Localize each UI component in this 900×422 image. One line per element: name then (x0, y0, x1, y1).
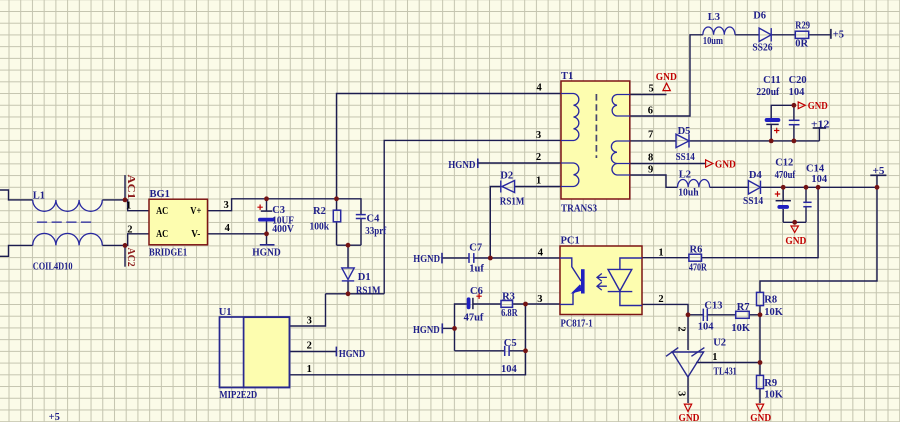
node D1 bottom junction (346, 291, 351, 296)
svg-text:HGND: HGND (252, 248, 281, 259)
svg-text:U2: U2 (713, 337, 726, 348)
wire T1 pin7 to D5 (630, 140, 676, 142)
ground symbol GND at T1 pin8 (red right arrow) (706, 160, 713, 167)
svg-text:100k: 100k (310, 222, 330, 233)
svg-text:C6: C6 (470, 286, 483, 297)
wire T1 pin9 to L2 (630, 175, 678, 187)
svg-text:10K: 10K (764, 307, 784, 318)
wire +12 stem (818, 128, 820, 141)
svg-text:C5: C5 (504, 338, 517, 349)
diode D2 (501, 181, 515, 193)
capacitor C12 (electrolytic) (775, 191, 791, 209)
wire TL431 anode to GND (687, 376, 689, 403)
svg-text:L3: L3 (708, 12, 720, 23)
svg-text:AC: AC (156, 229, 168, 240)
svg-text:3: 3 (676, 391, 687, 396)
transformer T1 primary winding pins4-3 (561, 94, 579, 141)
svg-text:RS1M: RS1M (356, 285, 381, 296)
wire C4 top branch (337, 199, 362, 215)
wire C6/C5 node vertical (455, 304, 467, 351)
svg-text:4: 4 (225, 223, 231, 234)
node C3 top junction (264, 196, 269, 201)
wire D1 bottom lead (347, 281, 349, 294)
wire L1 top to node AC1 (102, 199, 125, 201)
wire C5 riser to R3 node (525, 304, 527, 351)
svg-text:1: 1 (126, 200, 131, 211)
svg-text:470uf: 470uf (775, 170, 796, 181)
svg-text:470R: 470R (689, 262, 707, 273)
bridge BG1 body (149, 199, 208, 245)
svg-text:7: 7 (648, 130, 653, 141)
svg-text:D4: D4 (749, 170, 763, 181)
wire R6 to PC1 pin1 (642, 257, 689, 259)
svg-text:6: 6 (648, 105, 653, 116)
svg-text:9: 9 (648, 164, 653, 175)
optocoupler PC1 LED (608, 258, 642, 306)
svg-text:SS26: SS26 (752, 43, 772, 54)
svg-text:3: 3 (537, 294, 542, 305)
wire C12 bottom stub (782, 209, 784, 222)
svg-text:2: 2 (127, 224, 132, 235)
svg-text:HGND: HGND (339, 349, 366, 360)
svg-text:1: 1 (712, 352, 717, 363)
wire R8 bottom lead (759, 306, 761, 315)
svg-text:GND: GND (785, 236, 806, 247)
wire HGND to C7 (442, 257, 469, 259)
svg-text:HGND: HGND (413, 254, 440, 265)
svg-text:33prf: 33prf (365, 226, 386, 237)
svg-text:COIL4D10: COIL4D10 (33, 261, 73, 272)
optocoupler PC1 phototransistor (560, 258, 585, 304)
svg-text:104: 104 (698, 322, 715, 333)
wire +5 stem mid-right (876, 176, 878, 188)
inductor L3 (703, 27, 735, 35)
svg-text:GND: GND (679, 413, 700, 422)
diode D6 (759, 28, 771, 41)
wire C5 left lead (455, 350, 505, 352)
wire C20 bottom stub (793, 125, 795, 141)
svg-text:2: 2 (536, 152, 541, 163)
svg-text:U1: U1 (219, 307, 232, 318)
svg-text:+5: +5 (833, 29, 844, 40)
node C12 top junction (781, 185, 786, 190)
wire node AC1 to bridge pin1 (125, 200, 149, 211)
ground symbol GND below C12/C14 (red down arrow) (791, 226, 798, 232)
ground symbol GND below R9 (red down arrow) (756, 404, 763, 411)
svg-text:D5: D5 (678, 126, 691, 137)
svg-text:SS14: SS14 (743, 196, 764, 207)
svg-text:TRANS3: TRANS3 (561, 204, 597, 215)
node C12/C14 ground junction (792, 220, 797, 225)
svg-text:BRIDGE1: BRIDGE1 (149, 247, 187, 258)
svg-text:1: 1 (536, 175, 541, 186)
wire bridge pin4 to C3 bottom (208, 233, 267, 235)
wire L2 to D4 (710, 186, 749, 188)
optocoupler PC1 body (560, 246, 642, 315)
node C5 right junction (523, 348, 528, 353)
wire C13 tap (688, 314, 703, 316)
node C11 bottom junction (769, 139, 774, 144)
wire U1 pin3 (290, 294, 326, 326)
svg-text:2: 2 (658, 294, 663, 305)
regulator U2 TL431 (666, 348, 704, 377)
svg-text:R2: R2 (313, 206, 326, 217)
svg-text:10K: 10K (764, 390, 784, 401)
ground symbol GND below TL431 (red down arrow) (684, 404, 691, 411)
svg-text:1: 1 (658, 248, 663, 259)
svg-text:HGND: HGND (413, 325, 440, 336)
svg-text:R3: R3 (502, 291, 515, 302)
wire C4 bottom stub (360, 219, 362, 246)
wire C3 bottom stub to HGND (266, 221, 268, 244)
svg-text:GND: GND (750, 413, 771, 422)
diode D4 (748, 181, 760, 194)
svg-text:104: 104 (789, 87, 806, 98)
wire T1 pin5 to GND (630, 94, 667, 96)
wire L3 to D6 (735, 34, 759, 36)
node C3 bottom junction (264, 231, 269, 236)
svg-text:D2: D2 (500, 171, 513, 182)
svg-text:TL431: TL431 (714, 366, 737, 377)
svg-text:D1: D1 (358, 272, 371, 283)
transformer T1 core dashed line (595, 94, 597, 158)
node C20 bottom junction (792, 139, 797, 144)
wire T1 pin8 to GND (630, 163, 706, 165)
wire AC-in top-left entry (0, 190, 33, 200)
node +5 stem junction (875, 185, 880, 190)
transformer T1 secondary winding pins7-8-9 (611, 141, 630, 175)
wire C20 top stub (793, 105, 795, 120)
resistor R7 (736, 311, 750, 318)
wire T1 pin6 up to L3 (630, 35, 703, 116)
svg-text:MIP2E2D: MIP2E2D (219, 390, 257, 401)
svg-text:2: 2 (676, 326, 687, 331)
svg-text:AC: AC (156, 206, 168, 217)
capacitor C20 (789, 120, 800, 124)
wire HGND to T1 pin2 (478, 162, 561, 164)
wire PC1 pin2 to TL431 cathode (642, 304, 688, 350)
wire D1 node to T1 pin3 (384, 140, 561, 293)
power port +12 (813, 127, 826, 129)
svg-text:10uh: 10uh (678, 188, 699, 199)
svg-text:8: 8 (648, 153, 653, 164)
IC U1 MIP2E2D body (220, 317, 290, 388)
svg-text:C14: C14 (806, 164, 825, 175)
node R7/R8 junction (758, 312, 763, 317)
inductor L1 common-mode choke (33, 200, 103, 246)
wire node to T1 pin4 (337, 94, 562, 199)
power bar HGND at C6 node (441, 323, 443, 333)
wire D2 cathode to C7 node (490, 187, 501, 259)
svg-text:C13: C13 (704, 300, 722, 311)
svg-text:2: 2 (307, 341, 312, 352)
wire C6 right to R3 (473, 303, 501, 305)
wire R9 bottom to GND (759, 389, 761, 403)
svg-text:3: 3 (536, 130, 541, 141)
svg-text:RS1M: RS1M (500, 197, 525, 208)
capacitor C5 (505, 346, 509, 356)
svg-text:V+: V+ (190, 206, 201, 217)
wire C3 top stub (266, 199, 268, 211)
svg-text:4: 4 (538, 248, 544, 259)
wire C14 bottom stub (805, 207, 807, 223)
wire AC-in bottom-left entry (0, 245, 33, 256)
capacitor C11 (electrolytic) (765, 118, 781, 133)
node R3/PC1-pin3 junction (523, 302, 528, 307)
wire AC2 stub (124, 245, 126, 266)
diode D1 (342, 268, 354, 281)
wire R3 right to PC1 pin3 (513, 303, 561, 305)
svg-text:1uf: 1uf (469, 264, 484, 275)
wire C13 to R7 (707, 314, 735, 316)
node TL431 ref junction (758, 360, 763, 365)
transformer T1 primary winding pins2-1 (561, 163, 579, 187)
wire R29 to +5 (809, 34, 831, 36)
node R2/C4/D1 junction (346, 243, 351, 248)
wire U1 pin1 (290, 351, 526, 375)
svg-text:PC817-1: PC817-1 (561, 319, 593, 330)
resistor R9 (757, 375, 764, 388)
transformer T1 secondary winding pins5-6 (612, 95, 630, 117)
svg-text:SS14: SS14 (676, 152, 696, 163)
wire C7 to PC1 pin4 (474, 257, 560, 259)
wire C12/C14 ground link (783, 221, 806, 223)
svg-text:C12: C12 (775, 157, 793, 168)
wire R7 to R8 node (749, 314, 760, 316)
svg-text:L2: L2 (679, 170, 691, 181)
wire D5 cathode rail to +12 (689, 140, 819, 142)
wire AC1 stub (124, 175, 126, 200)
wire D1 top lead (347, 245, 349, 268)
power bar HGND at T1 pin2 (477, 159, 479, 169)
svg-text:GND: GND (715, 159, 736, 170)
svg-text:1: 1 (307, 364, 312, 375)
svg-text:T1: T1 (561, 71, 573, 82)
svg-text:GND: GND (656, 72, 677, 83)
svg-text:C11: C11 (763, 75, 781, 86)
svg-text:R6: R6 (690, 245, 703, 256)
svg-text:L1: L1 (33, 190, 45, 201)
wire D1 node horizontal (326, 293, 385, 295)
wire R2 bottom lead (336, 222, 338, 245)
node R6 riser junction (816, 185, 821, 190)
node C14 top junction (804, 185, 809, 190)
node C11/C20 top junction (792, 103, 797, 108)
node AC2 junction (123, 243, 128, 248)
svg-text:220uf: 220uf (756, 87, 779, 98)
svg-text:V-: V- (191, 229, 201, 240)
ground symbol GND at C11/C20 (red right arrow) (798, 102, 805, 109)
svg-text:R29: R29 (795, 21, 810, 32)
wire R9 top lead (759, 363, 761, 376)
svg-text:AC2: AC2 (125, 248, 136, 267)
svg-text:BG1: BG1 (150, 189, 170, 200)
svg-text:R7: R7 (737, 302, 750, 313)
capacitor C7 (469, 253, 474, 263)
wire U1 pin2 to HGND (290, 351, 337, 353)
power bar HGND at C7 (441, 253, 443, 264)
svg-text:C4: C4 (367, 213, 381, 224)
svg-text:6.8R: 6.8R (501, 308, 518, 319)
svg-text:0R: 0R (795, 39, 808, 50)
ground symbol GND at T1 pin5 (red up arrow) (663, 83, 670, 90)
wire TL431 ref to node (696, 362, 760, 364)
svg-text:4: 4 (537, 82, 543, 93)
wire C11 bottom stub (770, 124, 772, 141)
svg-text:5: 5 (649, 83, 654, 94)
wire C11 top stub (771, 105, 794, 118)
power bar HGND at U1 pin2 (335, 347, 337, 357)
diode D5 (676, 134, 689, 147)
wire R8 node down to ref node (759, 315, 761, 363)
svg-text:+12: +12 (811, 119, 830, 130)
svg-text:R9: R9 (764, 378, 777, 389)
wire L1 bottom to node AC2 (102, 244, 125, 246)
wire R6 riser from +5 rail (702, 187, 819, 257)
resistor R2 (333, 210, 340, 222)
svg-text:+5: +5 (49, 412, 60, 422)
wire R2 top lead (336, 199, 338, 210)
capacitor C4 (356, 215, 366, 219)
svg-text:GND: GND (808, 101, 828, 112)
power bar HGND at C3 (260, 244, 275, 246)
power port +5 top-right (830, 29, 832, 39)
svg-text:HGND: HGND (448, 160, 476, 171)
svg-text:D6: D6 (753, 11, 766, 22)
svg-text:C3: C3 (272, 205, 285, 216)
power port +5 mid-right (870, 174, 886, 176)
svg-text:104: 104 (501, 364, 518, 375)
capacitor C14 (803, 202, 811, 206)
optocoupler PC1 light arrows (597, 274, 607, 291)
svg-text:3: 3 (224, 200, 229, 211)
node C13 tap junction (686, 312, 691, 317)
svg-text:3: 3 (307, 315, 312, 326)
wire C5 right lead (509, 350, 525, 352)
svg-text:PC1: PC1 (561, 236, 580, 247)
svg-text:+5: +5 (873, 166, 885, 177)
wire C12 top stub (782, 187, 784, 200)
transformer T1 body (561, 81, 630, 199)
wire bridge pin3 to C3/R2 node (208, 199, 337, 211)
svg-text:104: 104 (811, 174, 828, 185)
node HGND/C6 junction (452, 326, 457, 331)
resistor R29 (795, 31, 808, 38)
capacitor C3 (electrolytic) (257, 205, 274, 222)
svg-text:AC1: AC1 (125, 175, 136, 200)
wire R2/C4 bottom link (337, 244, 362, 246)
node AC1 junction (123, 198, 128, 203)
svg-text:10um: 10um (703, 36, 723, 47)
wire D4 cathode +5 rail (761, 186, 878, 188)
svg-text:400V: 400V (272, 224, 294, 235)
capacitor C13 (703, 309, 707, 321)
inductor L2 (678, 179, 710, 187)
svg-text:C20: C20 (789, 75, 807, 86)
node R2 top junction (334, 196, 339, 201)
node C7/D2 junction (488, 256, 493, 261)
wire node AC2 to bridge pin2 (125, 234, 149, 246)
wire D2 anode to T1 pin1 (515, 186, 561, 188)
wire HGND to C6/C5 node (442, 327, 454, 329)
capacitor C6 (electrolytic) (467, 294, 482, 310)
resistor R3 (501, 301, 513, 308)
resistor R8 (757, 292, 764, 305)
svg-text:R8: R8 (764, 295, 777, 306)
wire C14 top stub (805, 187, 807, 202)
svg-text:10K: 10K (731, 323, 751, 334)
wire D6 to R29 (771, 34, 795, 36)
svg-text:C7: C7 (469, 242, 482, 253)
resistor R6 (689, 254, 702, 261)
wire +5 rail down to R8 (760, 187, 877, 292)
svg-text:47uf: 47uf (464, 313, 484, 324)
